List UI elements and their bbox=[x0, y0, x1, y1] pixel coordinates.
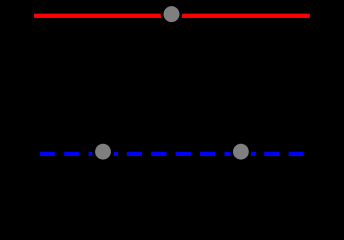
upper ball (gray particle on red level) bbox=[164, 6, 180, 22]
dash 2 bbox=[64, 152, 79, 156]
lower energy level (dashed blue line) bbox=[40, 152, 304, 156]
dash 3 (runs under left ball) bbox=[89, 152, 118, 156]
dash 7 bbox=[200, 152, 215, 156]
dash 10 bbox=[289, 152, 304, 156]
dash 9 bbox=[264, 152, 279, 156]
dash 5 bbox=[151, 152, 166, 156]
dash 8 (runs under right ball) bbox=[224, 152, 255, 156]
lower-left ball dark ring bbox=[92, 141, 114, 163]
dash 6 bbox=[176, 152, 191, 156]
lower-left ball (gray particle on blue level) bbox=[95, 144, 111, 160]
dash 4 bbox=[127, 152, 142, 156]
lower-right ball (gray particle on blue level) bbox=[233, 144, 249, 160]
lower-right ball dark ring bbox=[230, 141, 251, 162]
upper energy level (solid red line) bbox=[34, 14, 310, 18]
dash 1 bbox=[40, 152, 55, 156]
upper ball dark ring bbox=[161, 3, 183, 25]
